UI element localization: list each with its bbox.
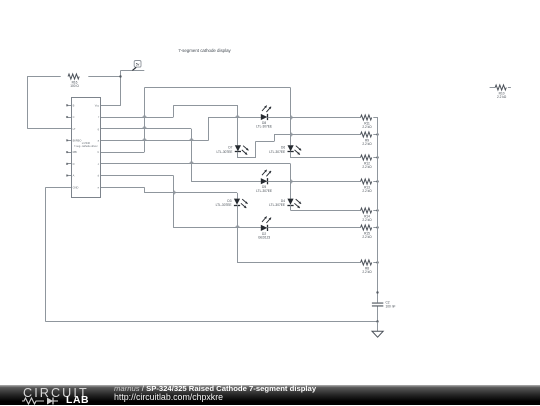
svg-text:LT: LT [73, 127, 76, 131]
svg-text:B: B [73, 103, 75, 107]
svg-text:D6: D6 [281, 145, 285, 149]
svg-text:GED123: GED123 [258, 236, 270, 240]
svg-text:2.2 kΩ: 2.2 kΩ [362, 189, 372, 193]
svg-text:100 nF: 100 nF [386, 305, 396, 309]
svg-text:LTL-307EE: LTL-307EE [269, 203, 285, 207]
svg-text:100 Ω: 100 Ω [70, 84, 79, 88]
svg-text:Vcc: Vcc [95, 103, 100, 107]
svg-text:A: A [73, 174, 75, 178]
svg-text:LTL-307EE: LTL-307EE [216, 203, 232, 207]
svg-text:2.2 kΩ: 2.2 kΩ [362, 270, 372, 274]
svg-text:7-seg. cathode driver: 7-seg. cathode driver [74, 145, 98, 148]
svg-text:C: C [73, 115, 75, 119]
svg-text:5v: 5v [136, 63, 140, 67]
svg-text:2.2 kΩ: 2.2 kΩ [362, 218, 372, 222]
svg-text:LTL-307EE: LTL-307EE [256, 125, 272, 129]
svg-text:D3: D3 [227, 199, 231, 203]
svg-text:D4: D4 [281, 199, 285, 203]
svg-text:2.2 kΩ: 2.2 kΩ [497, 95, 507, 99]
svg-text:BI/RBO: BI/RBO [73, 139, 82, 143]
svg-text:D: D [73, 162, 75, 166]
svg-text:GND: GND [73, 185, 79, 189]
svg-text:LTL-307EE: LTL-307EE [217, 150, 233, 154]
svg-text:2.2 kΩ: 2.2 kΩ [362, 125, 372, 129]
svg-text:2.2 kΩ: 2.2 kΩ [362, 142, 372, 146]
svg-text:LTL-307EE: LTL-307EE [269, 150, 285, 154]
svg-text:2.2 kΩ: 2.2 kΩ [362, 165, 372, 169]
svg-text:D7: D7 [228, 145, 232, 149]
svg-text:7-segment cathode display: 7-segment cathode display [178, 48, 231, 53]
svg-text:2.2 kΩ: 2.2 kΩ [362, 235, 372, 239]
svg-text:RBI: RBI [73, 150, 78, 154]
svg-text:LTL-307EE: LTL-307EE [256, 189, 272, 193]
